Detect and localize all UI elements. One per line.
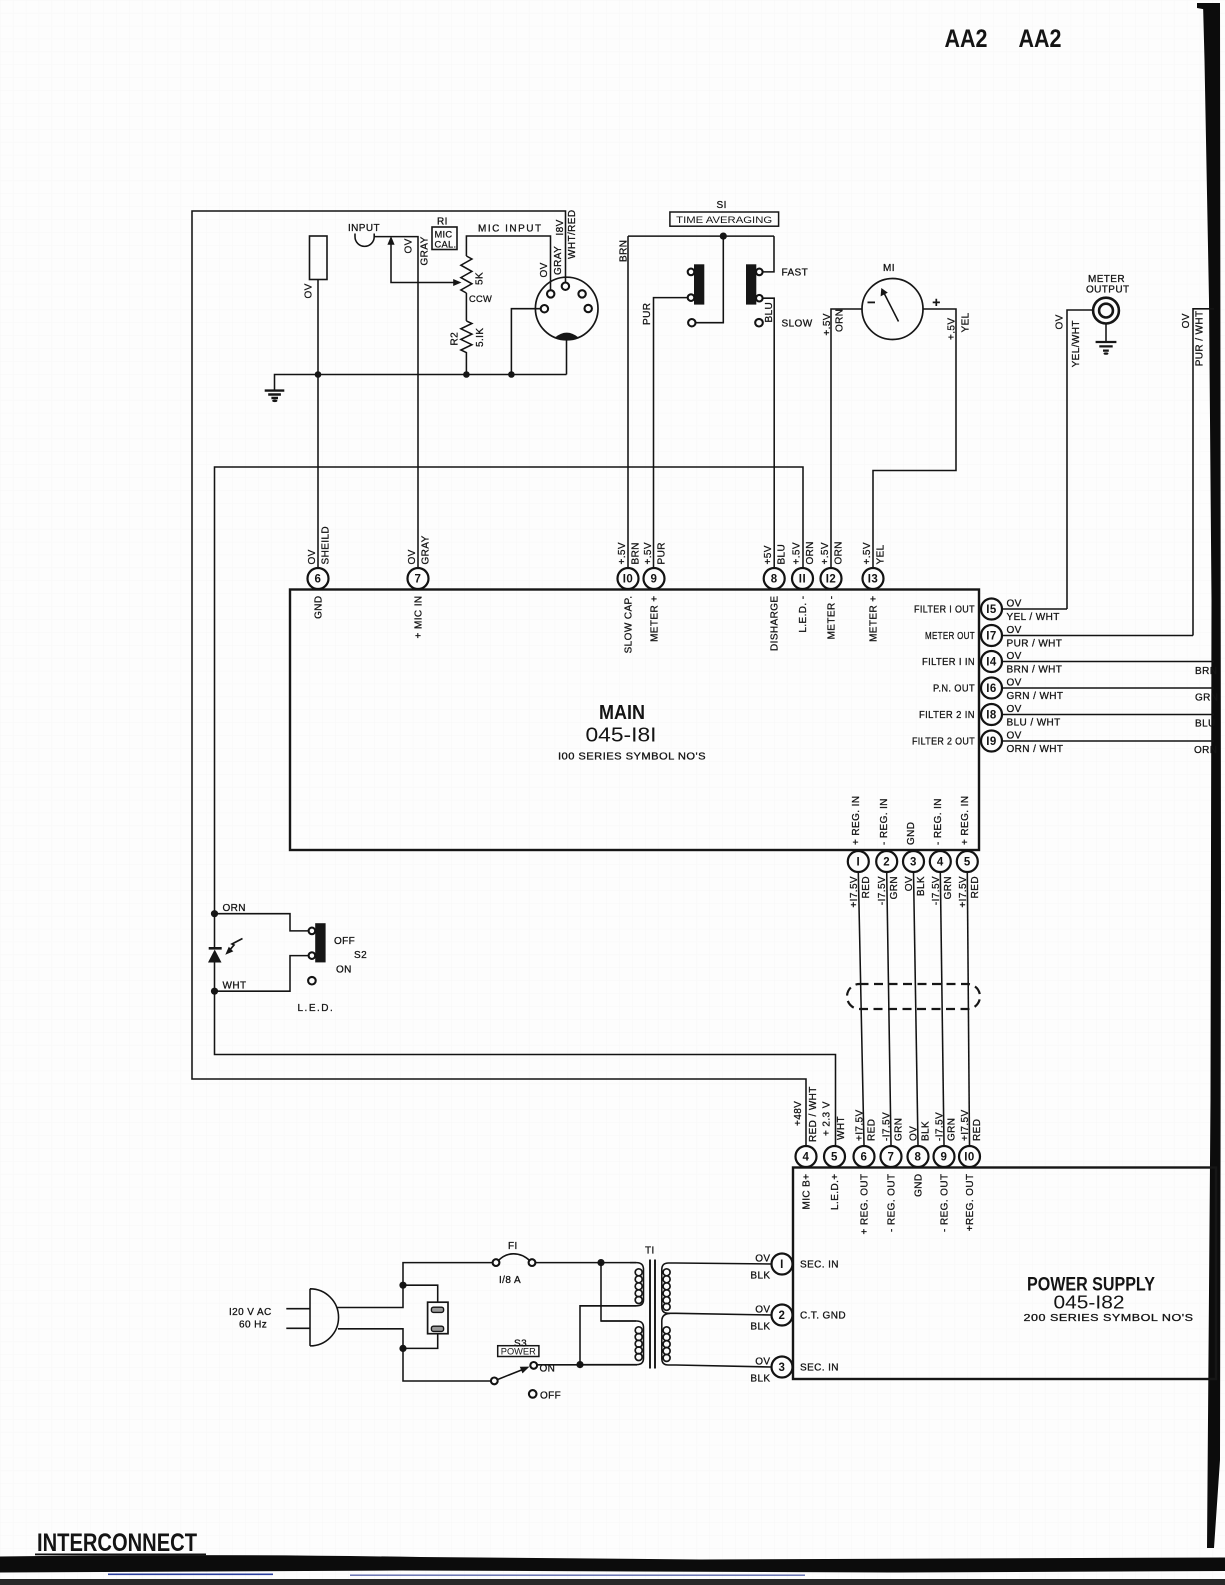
svg-text:OV: OV <box>909 1126 920 1141</box>
potentiometer R1 5K element <box>461 256 472 293</box>
S1 left pole actuator <box>694 264 704 304</box>
svg-text:ORN: ORN <box>805 541 816 564</box>
svg-text:METER +: METER + <box>650 596 661 642</box>
meter needle <box>885 294 899 322</box>
svg-text:BRN: BRN <box>631 542 642 564</box>
svg-text:I: I <box>780 1259 784 1271</box>
svg-text:PUR: PUR <box>642 303 653 325</box>
plug prong bottom <box>286 1327 310 1329</box>
svg-text:GND: GND <box>914 1174 925 1197</box>
SECTION: S1 <box>619 200 813 568</box>
svg-text:+ 2.3 V: + 2.3 V <box>822 1101 833 1136</box>
svg-text:I00 SERIES SYMBOL NO'S: I00 SERIES SYMBOL NO'S <box>558 752 706 763</box>
wire +48V loop: left border, top border, riser to DIN 18V pin <box>192 211 806 1146</box>
svg-text:OUTPUT: OUTPUT <box>1086 285 1130 296</box>
svg-text:9: 9 <box>651 574 658 586</box>
SECTION: meter <box>822 263 1214 636</box>
switch S2 actuator <box>315 923 325 962</box>
S1 left pole top contact <box>688 269 695 276</box>
T1 secondary lower winding <box>662 1313 772 1367</box>
svg-text:L.E.D.: L.E.D. <box>298 1003 335 1014</box>
svg-text:GRN: GRN <box>1195 693 1218 704</box>
SECTION: power supply <box>750 1146 1216 1385</box>
fuse F1 <box>493 1259 500 1266</box>
SECTION: main board <box>290 526 1002 872</box>
svg-text:OV: OV <box>1055 314 1066 329</box>
svg-text:ORN / WHT: ORN / WHT <box>1007 744 1064 755</box>
meter output jack J2 <box>1093 298 1119 324</box>
svg-text:MI: MI <box>883 263 895 274</box>
wire BRN riser to pin 10 <box>627 236 629 568</box>
shield sleeve rectangle <box>310 236 328 280</box>
pin 6 <box>308 568 329 589</box>
svg-text:+5V: +5V <box>763 545 774 564</box>
wire DIN low-left pin to bus <box>511 309 540 375</box>
svg-text:7: 7 <box>888 1152 895 1164</box>
svg-text:-I7.5V: -I7.5V <box>931 876 942 905</box>
wire meter plus to pin 13 <box>873 309 956 568</box>
plug prong top <box>286 1308 310 1310</box>
svg-text:YEL: YEL <box>961 312 972 332</box>
LED D1 <box>208 914 243 992</box>
svg-text:I: I <box>856 857 860 869</box>
svg-text:GRAY: GRAY <box>553 246 564 275</box>
T1 core <box>650 1260 655 1369</box>
svg-text:OV: OV <box>1007 651 1022 662</box>
svg-text:FILTER 2 OUT: FILTER 2 OUT <box>912 737 975 748</box>
svg-text:METER -: METER - <box>827 596 838 640</box>
wire S1 common top <box>628 235 774 237</box>
wire to line filter top <box>403 1285 438 1302</box>
svg-text:I0: I0 <box>623 574 634 586</box>
svg-text:AA2: AA2 <box>1019 25 1062 53</box>
bottom speckle strip <box>0 1579 1225 1585</box>
pin 16 <box>981 678 1002 699</box>
svg-text:7: 7 <box>415 574 422 586</box>
wire LED orn to main pin 11 <box>215 467 804 914</box>
junction ORN <box>211 910 218 917</box>
svg-text:RED: RED <box>970 876 981 898</box>
svg-text:+.5V: +.5V <box>792 542 803 564</box>
ps pin 2 <box>772 1305 793 1326</box>
svg-text:OV: OV <box>1007 731 1022 742</box>
S1 right pole mid contact <box>756 295 763 302</box>
svg-text:BRN / WHT: BRN / WHT <box>1007 665 1063 676</box>
svg-text:RED: RED <box>867 1119 878 1141</box>
input jack tip contact <box>355 234 374 247</box>
wire main3 to ps8 <box>914 872 919 1145</box>
svg-text:GRN: GRN <box>947 1118 958 1141</box>
wire pin17 to pur/wht riser <box>1002 635 1193 637</box>
svg-text:I20 V AC: I20 V AC <box>229 1307 272 1318</box>
wire cord hot <box>338 1263 493 1308</box>
svg-text:GRAY: GRAY <box>420 236 431 265</box>
svg-text:4: 4 <box>937 857 944 869</box>
svg-text:OV: OV <box>755 1357 770 1368</box>
svg-text:I9: I9 <box>986 736 997 748</box>
svg-text:CAL.: CAL. <box>435 240 457 250</box>
svg-text:GRN: GRN <box>894 1118 905 1141</box>
svg-text:L.E.D. -: L.E.D. - <box>798 596 809 633</box>
T1 secondary upper winding <box>662 1263 772 1315</box>
svg-text:BLK: BLK <box>916 876 927 896</box>
svg-text:+.5V: +.5V <box>947 318 958 340</box>
svg-text:BLU: BLU <box>764 302 775 323</box>
svg-text:MIC B+: MIC B+ <box>802 1174 813 1210</box>
svg-text:FAST: FAST <box>782 268 809 279</box>
svg-text:+.5V: +.5V <box>862 542 873 564</box>
svg-text:GRAY: GRAY <box>421 535 432 564</box>
svg-text:+I7.5V: +I7.5V <box>855 1109 866 1141</box>
svg-text:P.N. OUT: P.N. OUT <box>933 684 975 695</box>
svg-text:3: 3 <box>779 1362 786 1374</box>
svg-text:GND: GND <box>906 822 917 845</box>
svg-text:I7: I7 <box>986 631 997 643</box>
svg-text:WHT/RED: WHT/RED <box>567 210 578 259</box>
SECTION: harness <box>793 872 983 1145</box>
wire S3 on to T1 <box>537 1364 637 1366</box>
svg-text:8: 8 <box>771 574 778 586</box>
ps pin 4 <box>796 1146 817 1167</box>
svg-text:I8V: I8V <box>555 219 566 235</box>
svg-text:MIC INPUT: MIC INPUT <box>478 224 543 235</box>
svg-text:RI: RI <box>437 217 448 228</box>
svg-text:+ REG. IN: + REG. IN <box>960 796 971 845</box>
svg-text:L.E.D.+: L.E.D.+ <box>830 1174 841 1210</box>
svg-text:CCW: CCW <box>469 294 492 304</box>
svg-text:+ MIC IN: + MIC IN <box>414 596 425 639</box>
wire pin18 filter2 in <box>1002 714 1214 716</box>
wire pur/wht riser top right <box>1193 309 1214 636</box>
svg-text:BLU / WHT: BLU / WHT <box>1007 718 1061 729</box>
svg-text:METER +: METER + <box>869 596 880 642</box>
svg-text:OFF: OFF <box>334 936 355 947</box>
svg-text:I/8 A: I/8 A <box>499 1275 521 1286</box>
svg-text:OFF: OFF <box>540 1391 561 1402</box>
DIN pin upper-right <box>578 290 585 297</box>
svg-text:OV: OV <box>1007 625 1022 636</box>
svg-text:- REG. IN: - REG. IN <box>933 798 944 845</box>
svg-text:RED: RED <box>861 876 872 898</box>
pin 13 <box>863 568 884 589</box>
svg-text:WHT: WHT <box>836 1116 847 1140</box>
wire common to left pole <box>696 236 724 323</box>
pin 17 <box>981 625 1002 646</box>
svg-text:RED: RED <box>972 1119 983 1141</box>
svg-text:+REG. OUT: +REG. OUT <box>965 1174 976 1232</box>
svg-text:4: 4 <box>803 1152 810 1164</box>
svg-text:BLK: BLK <box>750 1374 770 1385</box>
svg-text:+I7.5V: +I7.5V <box>958 876 969 908</box>
pin 9 <box>644 568 665 589</box>
svg-text:SI: SI <box>717 200 727 211</box>
wire main2 to ps7 <box>887 872 891 1145</box>
minus sign <box>868 302 876 304</box>
wire pin19 filter2 out <box>1002 740 1214 742</box>
pin 5 <box>957 851 978 872</box>
pin 10 <box>618 568 639 589</box>
svg-text:+I7.5V: +I7.5V <box>960 1109 971 1141</box>
junction WHT <box>211 988 218 995</box>
title underline <box>35 1554 206 1556</box>
svg-text:TIME AVERAGING: TIME AVERAGING <box>676 215 772 226</box>
svg-text:6: 6 <box>861 1152 868 1164</box>
svg-text:8: 8 <box>915 1152 922 1164</box>
T1 primary lower winding <box>580 1321 644 1365</box>
pin 18 <box>981 704 1002 725</box>
svg-text:OV: OV <box>1007 704 1022 715</box>
svg-text:6: 6 <box>315 574 322 586</box>
svg-text:OV: OV <box>904 876 915 891</box>
junction T1 return <box>576 1361 583 1368</box>
wire meter minus to pin 12 <box>831 309 862 568</box>
svg-text:+.5V: +.5V <box>820 542 831 564</box>
wire jack to pin7 gray <box>374 237 418 568</box>
pin 12 <box>821 568 842 589</box>
DIN pin mic <box>547 290 554 297</box>
svg-text:+ REG. IN: + REG. IN <box>851 796 862 845</box>
svg-text:5K: 5K <box>475 272 486 285</box>
svg-text:BRN: BRN <box>1195 666 1217 677</box>
S3 OFF contact <box>529 1390 537 1398</box>
svg-text:GRN: GRN <box>943 876 954 899</box>
DIN pin right <box>585 305 592 312</box>
svg-text:II: II <box>799 574 806 586</box>
plus sign <box>933 299 940 306</box>
svg-text:PUR: PUR <box>657 542 668 564</box>
pin 11 <box>792 568 813 589</box>
SECTION: right wires <box>1002 599 1218 757</box>
svg-text:SEC. IN: SEC. IN <box>800 1260 839 1271</box>
ps pin 7 <box>881 1146 902 1167</box>
svg-text:60 Hz: 60 Hz <box>239 1320 267 1331</box>
wire PUR from mid contact to pin 9 <box>654 298 688 568</box>
ps pin 1 <box>772 1254 793 1275</box>
wire primary upper return <box>580 1306 636 1365</box>
S2 on contact <box>309 952 316 959</box>
svg-text:OV: OV <box>539 262 550 277</box>
svg-text:BLK: BLK <box>750 1271 770 1282</box>
svg-text:RED / WHT: RED / WHT <box>808 1086 819 1142</box>
svg-text:AA2: AA2 <box>945 25 988 53</box>
svg-text:ORN: ORN <box>834 541 845 564</box>
T1 primary upper winding <box>580 1263 644 1306</box>
S2 open contact <box>308 977 316 985</box>
svg-text:- REG. IN: - REG. IN <box>879 798 890 845</box>
S1 right pole actuator <box>746 264 756 304</box>
svg-text:PUR / WHT: PUR / WHT <box>1194 310 1205 366</box>
svg-text:045-I82: 045-I82 <box>1054 1293 1125 1313</box>
svg-text:I0: I0 <box>964 1152 975 1164</box>
wire pin15 to meter output <box>1002 608 1067 610</box>
svg-text:I4: I4 <box>986 657 997 669</box>
pin 1 <box>848 851 869 872</box>
svg-text:GRN / WHT: GRN / WHT <box>1007 691 1064 702</box>
svg-text:OV: OV <box>1007 599 1022 610</box>
svg-text:OV: OV <box>307 549 318 564</box>
S2 off contact <box>309 928 316 935</box>
svg-text:INPUT: INPUT <box>348 223 380 234</box>
wire cord neutral <box>338 1329 491 1381</box>
svg-text:- REG. OUT: - REG. OUT <box>940 1174 951 1232</box>
wire pin14 filter1 in <box>1002 661 1214 663</box>
resistor R2 5.1K <box>461 321 472 375</box>
wire FAST contact to common <box>763 236 774 272</box>
jack ground stem <box>1105 323 1107 342</box>
svg-text:BLU: BLU <box>777 544 788 565</box>
S1 SLOW open contact <box>755 319 763 327</box>
svg-text:ORN: ORN <box>223 903 246 914</box>
svg-text:+.5V: +.5V <box>643 542 654 564</box>
svg-text:BLU: BLU <box>1195 719 1216 730</box>
svg-text:I6: I6 <box>986 683 997 695</box>
wire R1 top to DIN mic pin <box>466 236 550 290</box>
svg-text:YEL/WHT: YEL/WHT <box>1071 320 1082 367</box>
ps pin 3 <box>772 1357 793 1378</box>
wire main1 to ps6 <box>858 872 864 1145</box>
wire main4 to ps9 <box>940 872 944 1145</box>
cable bundle dashed oval <box>847 984 980 1009</box>
junction fuse node <box>597 1259 604 1266</box>
svg-text:I3: I3 <box>868 574 879 586</box>
AC plug P1 <box>310 1289 339 1346</box>
svg-text:+48V: +48V <box>793 1101 804 1126</box>
R1 MIC CAL designation box <box>432 227 457 250</box>
SECTION: led s2 <box>208 467 836 1145</box>
junction bus/R2 <box>463 371 470 378</box>
wire main5 to ps10 <box>967 872 969 1145</box>
pin 3 <box>903 851 924 872</box>
S1 right pole FAST contact <box>756 269 763 276</box>
wire wht to S2 on contact <box>215 956 309 992</box>
junction cord top <box>399 1282 406 1289</box>
svg-text:- REG. OUT: - REG. OUT <box>887 1174 898 1232</box>
svg-text:YEL: YEL <box>876 544 887 564</box>
pin 14 <box>981 651 1002 672</box>
meter M1 body <box>862 279 923 340</box>
svg-text:OV: OV <box>755 1305 770 1316</box>
svg-text:I8: I8 <box>986 710 997 722</box>
SECTION: ac input <box>229 1241 772 1402</box>
svg-text:2: 2 <box>779 1310 786 1322</box>
pin 7 <box>408 568 429 589</box>
svg-text:C.T. GND: C.T. GND <box>800 1311 846 1322</box>
svg-text:OV: OV <box>404 238 415 253</box>
wire fuse to T1 <box>535 1262 636 1264</box>
svg-text:INTERCONNECT: INTERCONNECT <box>37 1529 197 1557</box>
svg-text:SHEILD: SHEILD <box>321 526 332 565</box>
wire from line filter bottom <box>403 1334 438 1349</box>
svg-text:GND: GND <box>314 596 325 619</box>
ps pin 9 <box>934 1146 955 1167</box>
S3 name box POWER <box>498 1346 539 1357</box>
svg-text:FILTER I IN: FILTER I IN <box>922 657 975 668</box>
POWER SUPPLY board outline <box>793 1168 1216 1380</box>
bottom page-edge band <box>0 1555 1225 1572</box>
S1 left pole lower contact <box>688 319 695 326</box>
ps pin 8 <box>908 1146 929 1167</box>
svg-text:METER OUT: METER OUT <box>925 631 975 642</box>
svg-text:METER: METER <box>1088 274 1125 285</box>
svg-text:S2: S2 <box>354 950 367 961</box>
svg-text:3: 3 <box>910 857 917 869</box>
svg-text:YEL / WHT: YEL / WHT <box>1007 612 1060 623</box>
svg-text:-I7.5V: -I7.5V <box>935 1112 946 1141</box>
wire BLU from mid contact to pin 8 <box>763 298 775 568</box>
svg-text:BLK: BLK <box>750 1322 770 1333</box>
wire node to lower primary <box>601 1263 636 1321</box>
ground bus wire <box>275 340 567 392</box>
pin 15 <box>981 599 1002 620</box>
svg-text:ON: ON <box>336 965 352 976</box>
DIN pin left 0V <box>541 305 548 312</box>
svg-text:MIC: MIC <box>435 230 453 240</box>
connector J1 MIC INPUT DIN shell <box>535 277 598 340</box>
bottom band blue line <box>108 1574 273 1576</box>
pin 19 <box>981 731 1002 752</box>
svg-text:OV: OV <box>1007 678 1022 689</box>
S1 left pole mid contact <box>688 294 695 301</box>
pin 4 <box>930 851 951 872</box>
svg-text:ORN: ORN <box>835 309 846 332</box>
svg-text:2: 2 <box>883 857 890 869</box>
SECTION: top-left input <box>192 210 806 1146</box>
junction S1 common <box>720 233 727 240</box>
svg-text:POWER: POWER <box>501 1346 536 1356</box>
MAIN board outline <box>290 590 979 851</box>
S3 ON contact <box>530 1362 537 1369</box>
svg-text:200 SERIES SYMBOL NO'S: 200 SERIES SYMBOL NO'S <box>1024 1313 1194 1324</box>
wiper arrow to jack wire <box>391 242 454 283</box>
svg-text:045-I8I: 045-I8I <box>586 725 657 747</box>
svg-text:I2: I2 <box>826 574 837 586</box>
svg-text:+ REG. OUT: + REG. OUT <box>860 1174 871 1235</box>
chassis ground symbol <box>265 391 285 403</box>
svg-text:MAIN: MAIN <box>599 702 645 724</box>
pin 8 <box>764 568 785 589</box>
svg-text:FILTER 2 IN: FILTER 2 IN <box>919 710 975 721</box>
svg-text:5: 5 <box>964 857 971 869</box>
svg-text:OV: OV <box>407 549 418 564</box>
svg-text:FI: FI <box>508 1241 518 1252</box>
svg-text:ORN: ORN <box>1194 745 1217 756</box>
DIN pin top 18V <box>562 283 569 290</box>
svg-text:+.5V: +.5V <box>822 313 833 335</box>
svg-text:-I7.5V: -I7.5V <box>877 876 888 905</box>
svg-text:SEC. IN: SEC. IN <box>800 1363 839 1374</box>
svg-text:TI: TI <box>645 1246 655 1257</box>
svg-text:+.5V: +.5V <box>617 542 628 564</box>
S3 left contact <box>491 1378 498 1385</box>
right page-edge black bar <box>1203 3 1221 1548</box>
svg-text:DISHARGE: DISHARGE <box>770 596 781 651</box>
svg-text:FILTER I OUT: FILTER I OUT <box>914 605 975 616</box>
S1 name box TIME AVERAGING <box>670 212 779 226</box>
line filter block <box>428 1302 448 1334</box>
wire R1 to R2 <box>465 293 467 321</box>
svg-text:9: 9 <box>941 1152 948 1164</box>
wire LED wht to PS pin 5 <box>215 991 836 1145</box>
svg-text:-I7.5V: -I7.5V <box>882 1112 893 1141</box>
ps pin 5 <box>824 1146 845 1167</box>
svg-text:OV: OV <box>755 1254 770 1265</box>
S3 blade <box>497 1369 524 1380</box>
svg-text:BRN: BRN <box>619 240 630 262</box>
svg-text:WHT: WHT <box>223 981 247 992</box>
svg-text:5: 5 <box>831 1152 838 1164</box>
jack ground symbol <box>1096 342 1117 351</box>
svg-text:SLOW: SLOW <box>782 319 813 330</box>
